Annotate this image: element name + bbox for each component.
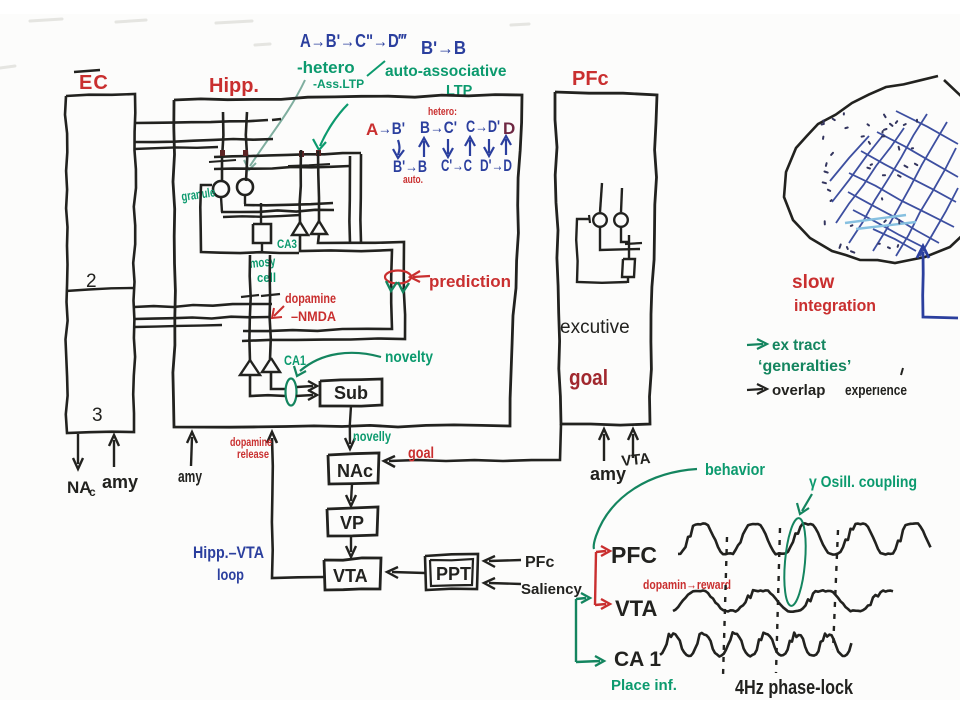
synapse tick b <box>288 164 330 166</box>
svg-text:γ Osill. coupling: γ Osill. coupling <box>809 474 917 491</box>
svg-text:‘generalties’: ‘generalties’ <box>758 358 851 375</box>
DG dendrite 1 <box>222 112 223 182</box>
svg-text:VTA: VTA <box>615 596 657 621</box>
red arrow dopamine to synapse <box>274 306 284 316</box>
svg-text:amy: amy <box>102 472 138 492</box>
svg-text:Cʹ→C: Cʹ→C <box>441 156 472 175</box>
arrow amy into PFC <box>603 434 605 461</box>
wire CA3 output outer <box>242 234 405 341</box>
svg-text:PFc: PFc <box>572 68 609 90</box>
svg-text:cell: cell <box>257 270 276 285</box>
dashed phase line 1 <box>723 537 727 677</box>
svg-text:prediction: prediction <box>429 272 511 291</box>
stray apostrophe mark <box>901 368 903 375</box>
svg-text:auto-associative: auto-associative <box>385 63 507 80</box>
arrow gate to Sub upper <box>297 386 313 387</box>
svg-text:–NMDA: –NMDA <box>291 308 336 324</box>
svg-text:hetero:: hetero: <box>428 106 457 118</box>
svg-text:Hipp.–VTA: Hipp.–VTA <box>193 543 264 562</box>
wire EC to CA1 1 <box>134 304 272 307</box>
synapse tick a <box>209 160 236 162</box>
dashed phase line 2 <box>776 528 780 673</box>
PFC synapse tick 2 <box>625 243 642 244</box>
arrow amy up into Hipp <box>191 437 192 466</box>
faint whiteboard top-edge smudges <box>0 19 529 68</box>
svg-text:Dʹ→D: Dʹ→D <box>480 156 512 175</box>
wire Hipp-VTA loop <box>272 438 324 578</box>
arrow VP to VTA <box>350 536 352 552</box>
red ellipse prediction marker <box>385 271 411 284</box>
CA3 apical dendrite 1 <box>300 150 301 222</box>
svg-text:→Bʹ: →Bʹ <box>378 119 405 138</box>
wire CA1 axon 2 <box>271 372 285 389</box>
mini arrow down 3 <box>484 139 494 156</box>
svg-text:EC: EC <box>79 72 109 94</box>
svg-text:PPT: PPT <box>436 564 471 584</box>
CA1 synapse tick a <box>241 295 259 297</box>
svg-text:2: 2 <box>86 271 97 292</box>
svg-text:amy: amy <box>178 467 202 486</box>
NAc box <box>328 453 379 484</box>
PFC bracket wire <box>576 219 627 283</box>
arrow VTA into PFC <box>632 434 634 458</box>
svg-text:c: c <box>89 485 96 499</box>
svg-text:A: A <box>366 120 378 139</box>
green bracket VTA-CA1 <box>575 599 577 662</box>
PPT box inner <box>430 559 473 586</box>
wire PFC neuron1 down <box>600 227 640 250</box>
svg-text:loop: loop <box>217 567 244 584</box>
svg-text:Place inf.: Place inf. <box>611 677 677 694</box>
svg-text:amy: amy <box>590 464 626 484</box>
synapse junction marks dark red <box>220 150 321 157</box>
PFC box <box>555 92 657 425</box>
light blue strokes <box>845 215 916 229</box>
arrow PPT to VTA <box>392 572 425 573</box>
VP box <box>327 507 378 536</box>
arrow PFc into PPT <box>489 560 521 561</box>
svg-text:CA1: CA1 <box>284 352 306 368</box>
CA1 synapse tick b <box>261 294 280 296</box>
green arrowhead on outer wire <box>398 282 409 292</box>
wire granule bracket <box>200 185 299 253</box>
mossy cell stem <box>260 203 262 224</box>
green coupling ellipse <box>781 517 809 606</box>
wire EC to DG 1 <box>134 120 268 123</box>
svg-text:Hipp.: Hipp. <box>209 75 259 97</box>
svg-text:CA3: CA3 <box>277 237 297 251</box>
svg-text:NAc: NAc <box>337 461 373 481</box>
arrow gate to Sub lower <box>296 395 313 396</box>
mossy fiber bus 1 <box>244 203 333 205</box>
mini arrow up 1 <box>419 138 429 157</box>
svg-text:mosy: mosy <box>249 253 277 271</box>
wire granule1 axon <box>221 197 222 212</box>
CA1 theta wave <box>660 632 851 656</box>
wire CA1 axon 1 <box>250 375 286 396</box>
black arrow overlap <box>747 384 767 394</box>
faded curved arrow hetero to dentate synapses <box>250 80 305 166</box>
mossy fiber bus 2 <box>221 210 334 212</box>
synaptic bus line 3 <box>214 153 361 157</box>
wire EC to DG 2 <box>134 139 273 142</box>
svg-text:Saliency: Saliency <box>521 581 583 598</box>
wire top bus drop 1 <box>348 156 351 243</box>
VTA box <box>324 558 381 590</box>
blue arrow into blob <box>923 252 958 318</box>
PFC oscillation wave <box>678 523 931 554</box>
CA3 pyramidal cell 2 <box>311 221 327 234</box>
svg-text:VTA: VTA <box>621 450 652 470</box>
svg-text:excutive: excutive <box>560 317 630 338</box>
CA1 apical dendrite 2 <box>270 255 271 359</box>
granule cell 1 <box>213 181 229 197</box>
EC layer divider <box>66 288 134 291</box>
svg-text:-hetero: -hetero <box>297 58 355 77</box>
mini arrow down 2 <box>443 139 453 157</box>
wire mossy to bus <box>261 243 263 252</box>
svg-text:VTA: VTA <box>333 566 368 586</box>
svg-text:Sub: Sub <box>334 383 368 403</box>
CA3 apical dendrite 2 <box>318 151 319 221</box>
svg-text:novelly: novelly <box>353 428 391 444</box>
wire EC to CA1 2 <box>134 317 270 319</box>
svg-text:ex tract: ex tract <box>772 337 827 354</box>
svg-text:PFc: PFc <box>525 554 554 571</box>
Hipp box <box>173 95 522 428</box>
wire EC to DG 3 <box>134 147 218 149</box>
blue crosshatch up-right <box>830 114 958 256</box>
wire CA3 output inner <box>243 235 392 331</box>
mini arrow up 3 <box>501 136 511 155</box>
wire EC to CA1 3 <box>134 325 222 327</box>
blue crosshatch down-right <box>848 111 958 251</box>
mossy cell box <box>253 224 271 243</box>
green curved arrow auto-associative to CA3 dendrite <box>320 104 348 146</box>
red bracket PFC-VTA <box>595 552 596 605</box>
svg-text:experıence: experıence <box>845 382 907 399</box>
svg-text:overlap: overlap <box>772 382 825 399</box>
PFC input stem 2 <box>621 188 622 212</box>
green curved arrow novelty to gate <box>300 353 381 371</box>
svg-text:D: D <box>503 119 515 138</box>
wire goal from PFC to NAc <box>389 424 561 461</box>
svg-text:novelty: novelty <box>385 349 433 366</box>
svg-text:slow: slow <box>792 272 834 293</box>
svg-text:dopamine: dopamine <box>285 290 336 306</box>
green arrow to coupling ellipse <box>802 494 812 511</box>
black overline above EC <box>74 70 100 72</box>
PFC interneuron stem <box>628 235 630 259</box>
CA1 pyramidal cell 2 <box>262 358 280 372</box>
green curve behavior to PFC <box>594 469 697 549</box>
DG dendrite 2 <box>246 112 247 181</box>
PFC neuron 2 <box>614 213 628 227</box>
svg-text:CA 1: CA 1 <box>614 648 661 671</box>
svg-text:integration: integration <box>794 296 876 315</box>
svg-text:goal: goal <box>408 445 434 462</box>
EC box <box>65 94 136 433</box>
granule cell 2 <box>237 179 253 195</box>
ink speckles inside blob <box>822 113 918 252</box>
CA3 pyramidal cell 1 <box>292 222 308 235</box>
dashed phase line 3 <box>833 530 838 650</box>
VTA oscillation wave <box>673 590 893 612</box>
svg-text:NA: NA <box>67 478 92 497</box>
svg-text:dopamin→reward: dopamin→reward <box>643 577 731 592</box>
arrow Saliency into PPT <box>489 583 521 584</box>
svg-text:behavior: behavior <box>705 460 765 479</box>
wire PFC neuron2 down <box>621 227 629 242</box>
green arrow extract <box>747 339 767 349</box>
green arrowhead on inner wire <box>386 281 397 291</box>
PFC interneuron box <box>622 259 635 277</box>
synaptic bus line 4 <box>214 166 350 169</box>
svg-text:goal: goal <box>569 365 608 390</box>
arrow amy up into EC <box>113 440 115 467</box>
red arrow to prediction <box>413 276 430 277</box>
green ellipse novelty gate <box>286 379 297 406</box>
arrow EC down to NAc <box>77 434 79 464</box>
PFC neuron 1 <box>593 213 607 227</box>
PFC input stem 1 <box>600 183 602 212</box>
PFC bracket synapse tick <box>589 215 590 223</box>
svg-text:4Hz phase-lock: 4Hz phase-lock <box>735 677 854 699</box>
svg-text:-Ass.LTP: -Ass.LTP <box>313 77 364 91</box>
mossy fiber bus 3 <box>223 215 300 217</box>
wire top bus drop 2 <box>359 154 362 242</box>
svg-text:dopamine: dopamine <box>230 437 272 449</box>
arrow NAc to VP <box>351 484 352 501</box>
mini arrow down 1 <box>393 140 404 158</box>
svg-text:release: release <box>237 449 269 461</box>
svg-text:A→Bʹ→Cʺ→D‴: A→Bʹ→Cʺ→D‴ <box>300 31 407 51</box>
CA1 pyramidal cell 1 <box>240 360 260 375</box>
Sub box <box>320 379 382 406</box>
green tail stroke from auto-associative <box>367 61 385 76</box>
wire granule2 axon <box>244 195 246 204</box>
svg-text:Bʹ→B: Bʹ→B <box>421 38 466 58</box>
svg-text:3: 3 <box>92 405 103 426</box>
wire PFC box to bracket <box>627 277 629 283</box>
mini arrow up 2 <box>465 137 475 156</box>
svg-text:VP: VP <box>340 513 364 533</box>
svg-text:PFC: PFC <box>611 542 657 568</box>
svg-text:C→Dʹ: C→Dʹ <box>466 117 500 136</box>
svg-text:B→Cʹ: B→Cʹ <box>420 118 457 137</box>
CA1 apical dendrite 1 <box>249 255 250 361</box>
wire Sub to NAc <box>350 406 351 444</box>
PPT box outer <box>425 554 478 590</box>
svg-text:auto.: auto. <box>403 174 423 186</box>
